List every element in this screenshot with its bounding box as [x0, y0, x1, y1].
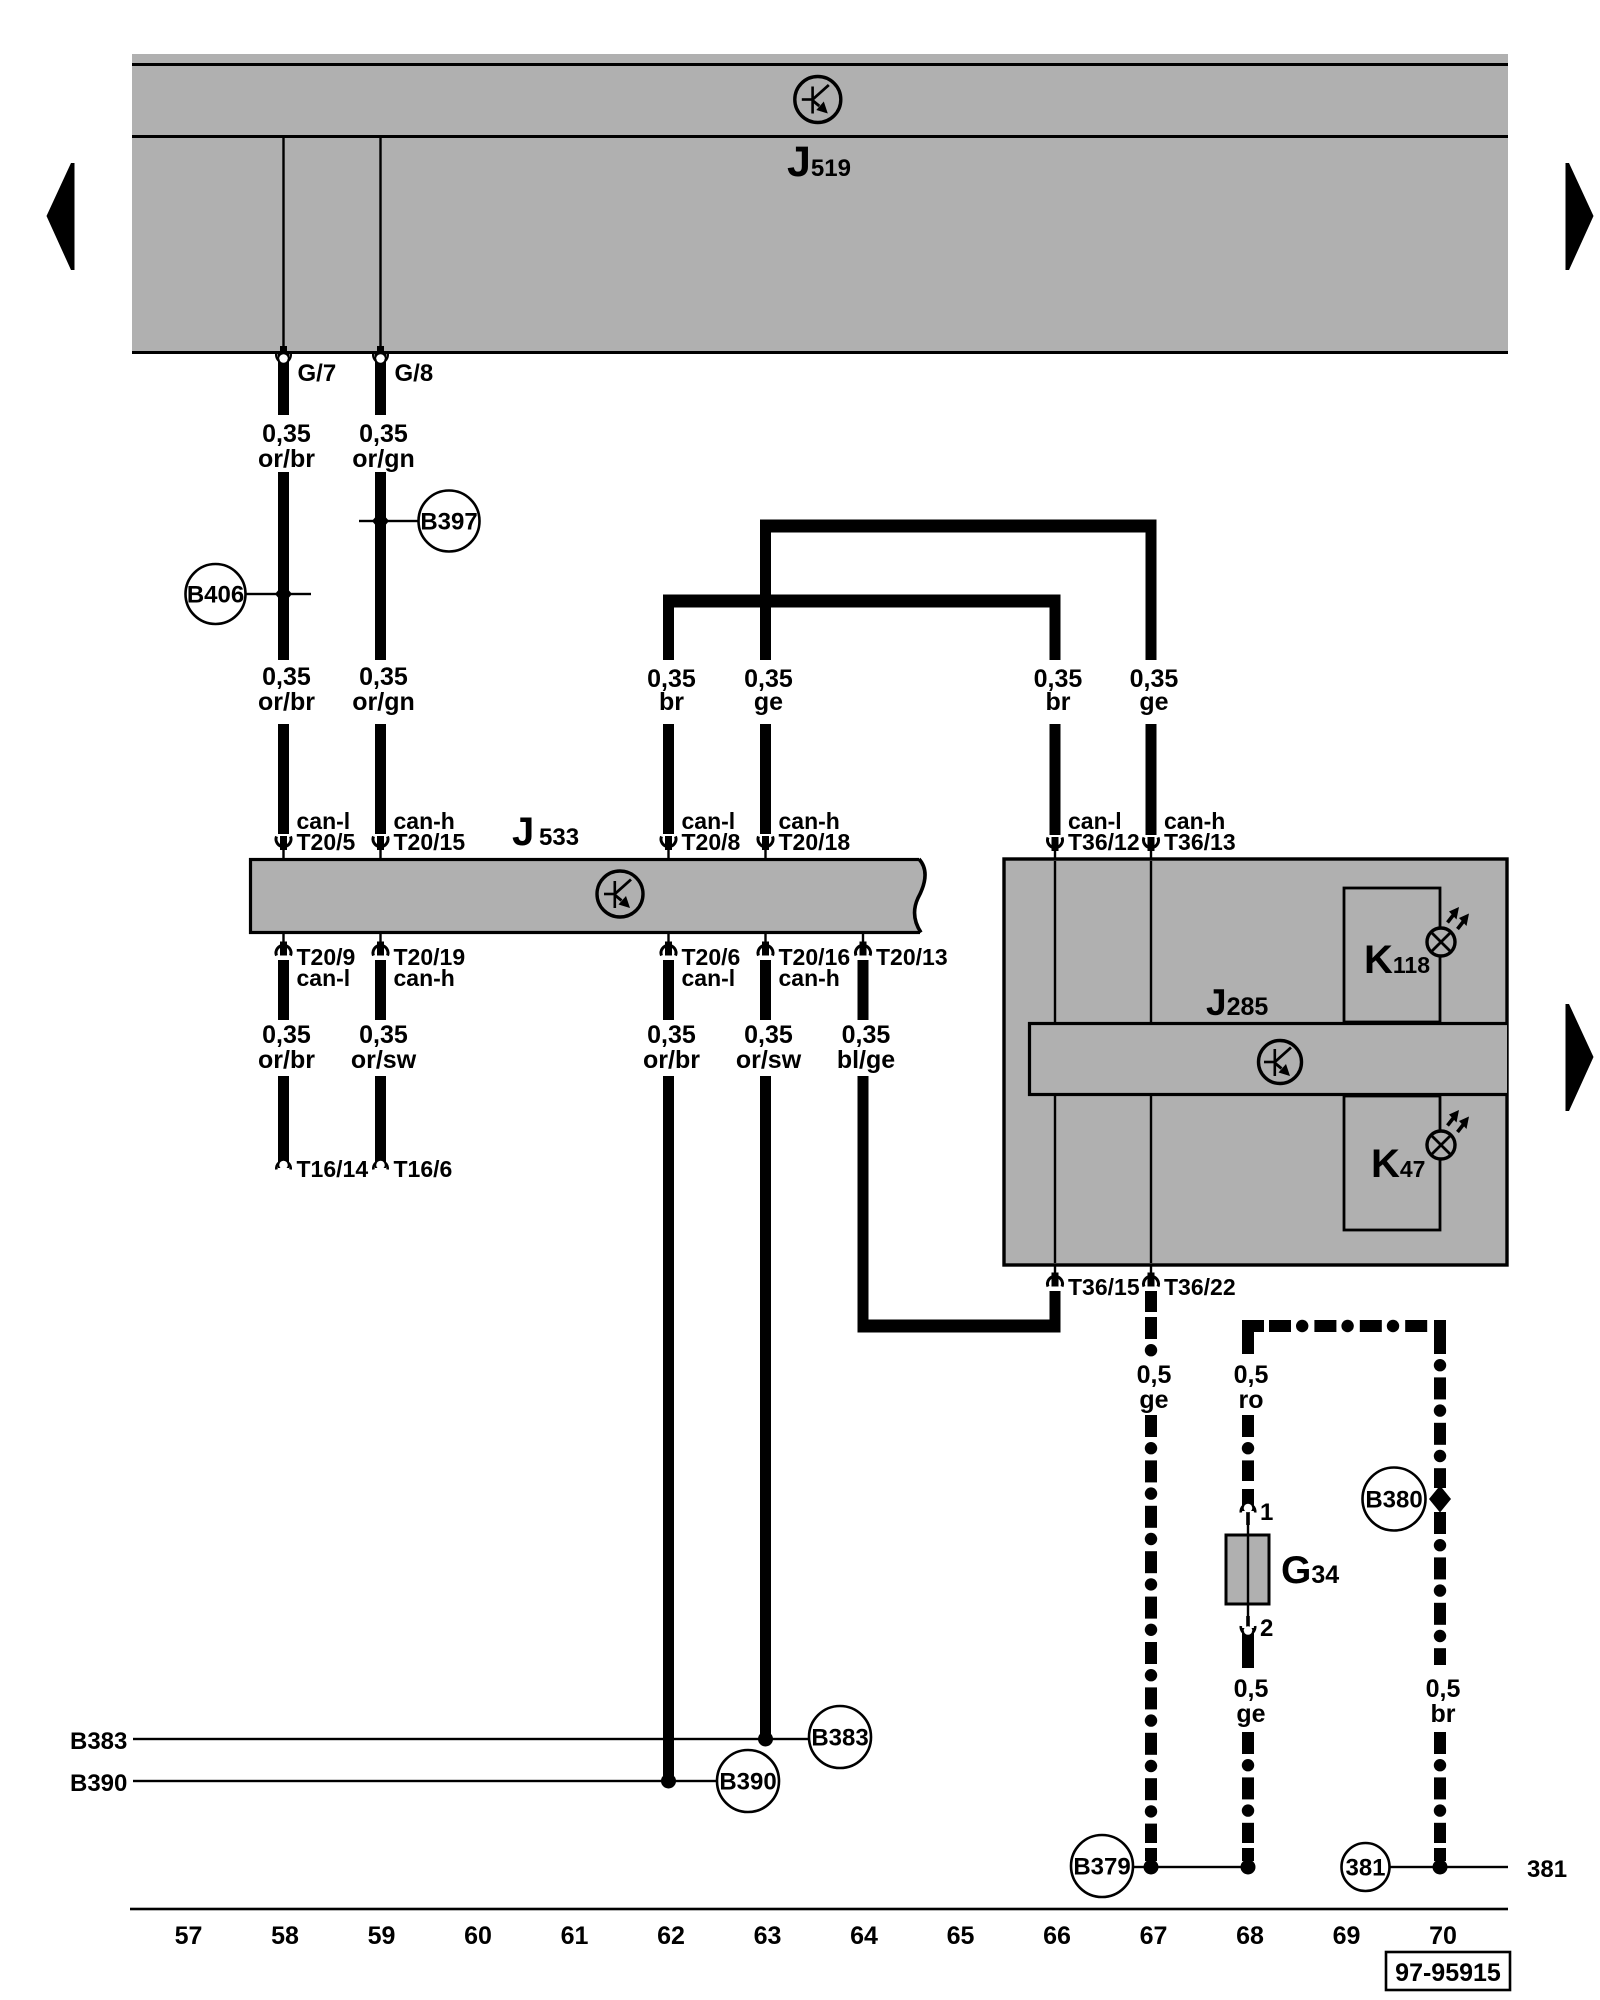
wire value label 0,35 or/sw (lower middle) — [736, 1021, 802, 1074]
label G34 — [1281, 1549, 1339, 1592]
svg-text:0,35: 0,35 — [359, 663, 408, 691]
svg-text:97-95915: 97-95915 — [1395, 1959, 1501, 1987]
wire value label 0,5 ge (lower) — [1234, 1675, 1269, 1728]
indicator lamp K118 box (brake system warning) — [1344, 888, 1440, 1022]
pin T20/15 of J533 (can-h) — [373, 836, 388, 859]
svg-text:58: 58 — [271, 1922, 299, 1950]
splice B397 on or/gn wire — [359, 491, 480, 552]
svg-text:T20/18: T20/18 — [779, 829, 851, 855]
svg-text:T36/15: T36/15 — [1068, 1274, 1140, 1300]
svg-text:or/br: or/br — [258, 445, 315, 473]
pin label can-h T36/13 — [1164, 808, 1236, 855]
internal lead connector bar to T36/22 inside J285 — [1150, 1096, 1152, 1263]
control unit J285 (instrument cluster) — [1004, 859, 1507, 1265]
wire 0,35 or/br from J533 T20/6 to node B390 — [663, 960, 674, 1781]
node B390 (wire or/br endpoint) — [70, 1750, 779, 1812]
node B383 (wire or/sw endpoint) — [70, 1706, 871, 1768]
wire value label 0,35 ge (right) — [1130, 665, 1179, 716]
svg-text:br: br — [1431, 1700, 1456, 1728]
svg-text:59: 59 — [368, 1922, 396, 1950]
wire 0,5 br from loop corner to ground node 381 (dashed) — [1434, 1332, 1446, 1861]
control unit symbol (J533) — [597, 871, 643, 917]
svg-text:66: 66 — [1043, 1922, 1071, 1950]
pin T20/18 of J533 (can-h) — [758, 836, 773, 859]
svg-text:T20/13: T20/13 — [876, 944, 948, 970]
wire 0,35 bl/ge from J533 T20/13 to J285 T36/15 — [858, 960, 1061, 1333]
label J285 — [1206, 982, 1268, 1023]
pin label can-h T20/18 — [779, 808, 851, 855]
svg-text:B406: B406 — [187, 582, 244, 609]
wire 0,5 ge from G34 pin 2 to node B379 (dashed) — [1241, 1626, 1255, 1861]
pin T36/13 of J285 (can-h) — [1144, 837, 1159, 860]
wire 0,35 or/sw from J533 T20/16 to node B383 — [760, 960, 771, 1739]
wire value label 0,35 or/br (upper) — [258, 420, 315, 473]
wire 0,35 ge from J533 T20/18 to J285 T36/13 (can-h) — [760, 520, 1157, 836]
pin label can-l T20/8 — [682, 808, 741, 855]
splice B406 on or/br wire — [186, 564, 312, 624]
svg-text:can-l: can-l — [297, 965, 351, 991]
svg-text:67: 67 — [1140, 1922, 1168, 1950]
ground node 381 — [1342, 1843, 1509, 1891]
pin T20/5 of J533 (can-l) — [276, 836, 291, 859]
internal lead connector bar to T36/15 inside J285 — [1054, 1096, 1056, 1263]
svg-text:0,35: 0,35 — [842, 1021, 891, 1049]
svg-text:0,35: 0,35 — [359, 1021, 408, 1049]
pin label 1 — [1260, 1499, 1273, 1526]
pin T20/19 of J533 (can-h) — [373, 934, 388, 956]
svg-text:or/br: or/br — [258, 688, 315, 716]
label J519 — [787, 138, 851, 186]
svg-text:ge: ge — [1236, 1700, 1265, 1728]
pin label T20/6 can-l — [682, 944, 741, 991]
wire 0,35 or/br from J519 G/7 to J533 T20/5 — [276, 354, 290, 834]
svg-text:63: 63 — [754, 1922, 782, 1950]
svg-text:can-h: can-h — [394, 965, 455, 991]
svg-text:0,35: 0,35 — [647, 1021, 696, 1049]
pin T36/15 of J285 — [1048, 1265, 1063, 1287]
node B379 (connection at bottom of ge wires) — [1071, 1835, 1256, 1897]
svg-text:B390: B390 — [70, 1770, 127, 1797]
svg-text:or/sw: or/sw — [351, 1046, 417, 1074]
indicator lamp K47 box (ABS warning) — [1344, 1096, 1440, 1230]
pin 1 of G34 — [1241, 1504, 1255, 1536]
svg-text:70: 70 — [1429, 1922, 1457, 1950]
svg-text:B379: B379 — [1073, 1854, 1130, 1881]
svg-text:G/8: G/8 — [395, 360, 434, 387]
svg-text:ge: ge — [1139, 688, 1168, 716]
wire 0,35 or/br from J533 T20/9 to T16/14 — [276, 960, 290, 1170]
current track scale line — [130, 1908, 1508, 1911]
pin label can-l T36/12 — [1068, 808, 1140, 855]
svg-text:or/sw: or/sw — [736, 1046, 802, 1074]
control unit symbol (J285) — [1259, 1041, 1302, 1084]
wire value label 0,35 or/sw (lower left) — [351, 1021, 417, 1074]
current track numbers 57-70 — [175, 1922, 1457, 1950]
svg-text:0,35: 0,35 — [359, 420, 408, 448]
svg-text:or/br: or/br — [643, 1046, 700, 1074]
pin label T20/9 can-l — [297, 944, 356, 991]
svg-text:65: 65 — [947, 1922, 975, 1950]
pin T20/8 of J533 (can-l) — [661, 836, 676, 859]
svg-text:T20/8: T20/8 — [682, 829, 741, 855]
label K118 — [1364, 938, 1430, 982]
svg-text:ge: ge — [1139, 1386, 1168, 1414]
wire value label 0,35 br (right) — [1034, 665, 1083, 716]
pin T20/13 of J533 — [856, 934, 871, 956]
svg-text:T16/14: T16/14 — [297, 1156, 369, 1182]
svg-text:57: 57 — [175, 1922, 203, 1950]
svg-text:0,35: 0,35 — [262, 1021, 311, 1049]
svg-text:can-h: can-h — [779, 965, 840, 991]
pin T20/16 of J533 (can-h) — [758, 934, 773, 956]
pin label T20/13 — [876, 944, 948, 970]
pin label can-l T20/5 — [297, 808, 356, 855]
svg-text:can-l: can-l — [682, 965, 736, 991]
continuation arrow right of J285 — [1566, 1004, 1594, 1111]
svg-text:B390: B390 — [719, 1769, 776, 1796]
dashed loop wire from G34 pin 1 up and over to ground 381 (horizontal run) — [1242, 1320, 1446, 1332]
splice B380 on br wire — [1363, 1468, 1452, 1531]
svg-text:or/br: or/br — [258, 1046, 315, 1074]
svg-text:69: 69 — [1333, 1922, 1361, 1950]
pin label G/7 — [298, 360, 337, 387]
lamp symbol K47 — [1427, 1110, 1469, 1159]
pin label T36/22 — [1164, 1274, 1236, 1300]
pin T20/6 of J533 (can-l) — [661, 934, 676, 956]
control unit J533 (data bus diagnostic interface) — [249, 858, 925, 934]
svg-text:60: 60 — [464, 1922, 492, 1950]
svg-text:0,5: 0,5 — [1426, 1675, 1461, 1703]
svg-text:61: 61 — [561, 1922, 589, 1950]
pin label G/8 — [395, 360, 434, 387]
svg-text:T36/12: T36/12 — [1068, 829, 1140, 855]
connector label T16/14 — [297, 1156, 369, 1182]
wire 0,35 or/sw from J533 T20/19 to T16/6 — [373, 960, 387, 1170]
wire value label 0,35 or/br (middle) — [258, 663, 315, 716]
pin T36/22 of J285 — [1144, 1265, 1159, 1287]
sensor G34 (brake pad wear sensor) — [1226, 1535, 1269, 1604]
svg-text:br: br — [659, 688, 684, 716]
svg-text:0,35: 0,35 — [262, 663, 311, 691]
continuation arrow left — [47, 163, 75, 270]
svg-text:68: 68 — [1236, 1922, 1264, 1950]
wire value label 0,35 or/br (lower left) — [258, 1021, 315, 1074]
wire value label 0,5 ro — [1234, 1361, 1269, 1414]
svg-text:62: 62 — [657, 1922, 685, 1950]
wire value label 0,35 or/br (lower middle) — [643, 1021, 700, 1074]
svg-text:G/7: G/7 — [298, 360, 337, 387]
label J533 — [512, 810, 579, 854]
connector label T16/6 — [394, 1156, 453, 1182]
svg-text:T16/6: T16/6 — [394, 1156, 453, 1182]
pin T36/12 of J285 (can-l) — [1048, 837, 1063, 860]
control unit J519 (onboard supply control unit) — [132, 54, 1508, 354]
svg-text:ge: ge — [754, 688, 783, 716]
svg-text:0,5: 0,5 — [1137, 1361, 1172, 1389]
wire 0,35 or/gn from J519 G/8 to J533 T20/15 — [373, 354, 387, 834]
svg-text:ro: ro — [1239, 1386, 1264, 1414]
svg-text:1: 1 — [1260, 1499, 1273, 1526]
svg-text:J 533: J 533 — [512, 810, 579, 854]
pin label T36/15 — [1068, 1274, 1140, 1300]
continuation arrow right of J519 — [1566, 163, 1594, 270]
pin label T20/16 can-h — [779, 944, 851, 991]
diagram number box 97-95915 — [1386, 1952, 1510, 1990]
wire value label 0,35 or/gn (middle) — [352, 663, 415, 716]
svg-text:0,35: 0,35 — [744, 1021, 793, 1049]
pin label 2 — [1260, 1615, 1273, 1642]
svg-text:T36/22: T36/22 — [1164, 1274, 1236, 1300]
svg-text:64: 64 — [850, 1922, 878, 1950]
svg-text:B397: B397 — [420, 509, 477, 536]
svg-text:bl/ge: bl/ge — [837, 1046, 895, 1074]
pin 2 of G34 — [1246, 1604, 1250, 1629]
wire value label 0,35 ge (left) — [744, 665, 793, 716]
pin label T20/19 can-h — [394, 944, 466, 991]
label K47 — [1371, 1142, 1425, 1186]
svg-text:or/gn: or/gn — [352, 688, 415, 716]
wire 0,5 ge from J285 T36/22 to node B379 (dashed) — [1145, 1291, 1157, 1861]
pin G/7 of J519 — [280, 138, 287, 357]
internal lead T36/13 to connector bar inside J285 — [1150, 861, 1152, 1022]
pin G/8 of J519 — [377, 138, 384, 357]
lamp symbol K118 — [1427, 907, 1469, 956]
svg-text:0,5: 0,5 — [1234, 1675, 1269, 1703]
svg-text:T20/15: T20/15 — [394, 829, 466, 855]
svg-text:br: br — [1046, 688, 1071, 716]
pin T20/9 of J533 (can-l) — [276, 934, 291, 956]
pin label can-h T20/15 — [394, 808, 466, 855]
wire 0,5 ro from loop corner to G34 pin 1 (dashed) — [1242, 1332, 1254, 1511]
wire value label 0,35 br (left) — [647, 665, 696, 716]
label 381 (right) — [1527, 1856, 1567, 1883]
svg-text:B383: B383 — [811, 1725, 868, 1752]
svg-text:381: 381 — [1345, 1855, 1385, 1882]
svg-text:G34: G34 — [1281, 1549, 1339, 1592]
svg-text:or/gn: or/gn — [352, 445, 415, 473]
wire value label 0,5 ge (upper) — [1137, 1361, 1172, 1414]
svg-text:0,5: 0,5 — [1234, 1361, 1269, 1389]
wire value label 0,35 or/gn (upper) — [352, 420, 415, 473]
svg-text:T20/5: T20/5 — [297, 829, 356, 855]
internal lead T36/12 to connector bar inside J285 — [1054, 861, 1056, 1022]
svg-text:2: 2 — [1260, 1615, 1273, 1642]
svg-text:B383: B383 — [70, 1728, 127, 1755]
wire value label 0,35 bl/ge — [837, 1021, 895, 1074]
wire value label 0,5 br — [1426, 1675, 1461, 1728]
connector bar inside J285 — [1028, 1022, 1507, 1096]
control unit symbol (J519) — [795, 77, 841, 123]
svg-text:T36/13: T36/13 — [1164, 829, 1236, 855]
wire 0,35 br from J533 T20/8 to J285 T36/12 (can-l) — [663, 595, 1061, 836]
svg-text:381: 381 — [1527, 1856, 1567, 1883]
svg-text:0,35: 0,35 — [262, 420, 311, 448]
svg-text:B380: B380 — [1365, 1487, 1422, 1514]
